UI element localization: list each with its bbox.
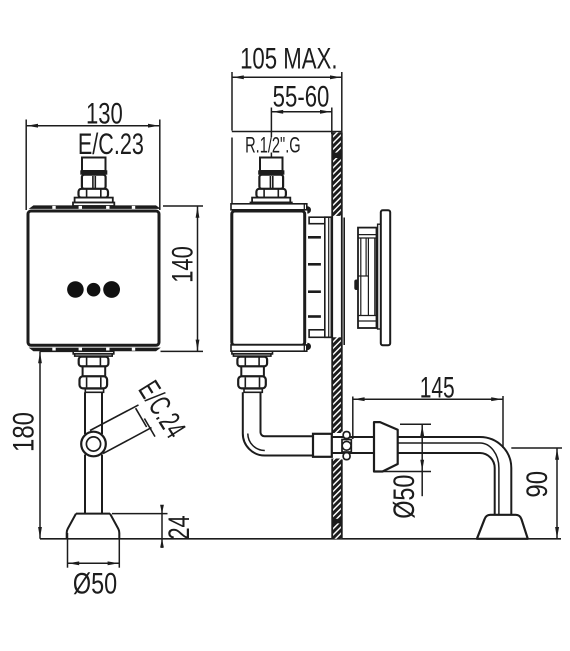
bracket tooth 1 bbox=[308, 236, 321, 239]
E/C.24 connector callout lines bbox=[90, 405, 155, 454]
inlet tube (front) bbox=[82, 158, 106, 172]
wall back contact line bbox=[343, 218, 345, 346]
top lid (side) bbox=[231, 204, 307, 210]
sensor dot middle bbox=[87, 283, 101, 297]
elbow highlight line bbox=[248, 434, 265, 451]
svg-text:Ø50: Ø50 bbox=[387, 475, 420, 519]
dimension 140 bbox=[161, 206, 204, 351]
outlet lower nut (front) bbox=[80, 376, 108, 388]
sensor dot right bbox=[103, 281, 120, 298]
inlet base step 1 (front) bbox=[75, 198, 113, 203]
svg-text:24: 24 bbox=[162, 515, 196, 539]
dimension 90 bbox=[511, 448, 562, 539]
svg-text:90: 90 bbox=[519, 471, 553, 498]
concealed bracket body (behind wall) bbox=[358, 228, 377, 328]
dimension 55-60 bbox=[271, 108, 331, 158]
outlet lower nut (side) bbox=[238, 376, 266, 388]
valve box body (front) bbox=[28, 211, 159, 345]
niche top line bbox=[232, 131, 342, 133]
bottom lid (front) bbox=[29, 348, 161, 352]
inlet base step 1 (side) bbox=[252, 198, 290, 203]
inlet hex nut (front) bbox=[79, 189, 109, 198]
svg-text:105 MAX.: 105 MAX. bbox=[240, 41, 337, 75]
wall section bbox=[332, 132, 342, 539]
svg-text:55-60: 55-60 bbox=[273, 79, 330, 113]
outlet sleeve (front) bbox=[85, 389, 103, 393]
flush pipe upper segment (front) bbox=[85, 392, 102, 434]
elbow ball joint bbox=[81, 432, 106, 457]
outlet sleeve (side) bbox=[244, 389, 262, 393]
dimension Ø50 (side) bbox=[383, 424, 432, 496]
dimension 105 MAX. bbox=[232, 72, 342, 206]
svg-text:Ø50: Ø50 bbox=[73, 567, 117, 600]
svg-text:145: 145 bbox=[420, 372, 455, 404]
inlet compression ring (side) bbox=[258, 170, 284, 174]
outlet base step 2 (front) bbox=[75, 354, 113, 356]
outlet base step 2 (side) bbox=[233, 354, 271, 356]
outlet hex nut (front) bbox=[79, 357, 109, 367]
svg-text:E/C.23: E/C.23 bbox=[78, 127, 144, 161]
inlet compression ring (front) bbox=[80, 170, 107, 174]
through-wall locknut body bbox=[342, 440, 351, 453]
horizontal pipe to bend (side) bbox=[398, 437, 512, 515]
inlet upper nut (front) bbox=[82, 175, 106, 189]
bottom lid (side) bbox=[231, 345, 307, 351]
outlet neck (side) bbox=[241, 366, 264, 376]
pipe foot (side) bbox=[477, 515, 528, 539]
wall anchor blob upper bbox=[332, 153, 342, 158]
outlet neck (front) bbox=[83, 366, 106, 376]
mounting bracket bottom cap (side) bbox=[309, 330, 331, 338]
bottom lid end cap (side) bbox=[307, 343, 311, 350]
dimension Ø50 (front) bbox=[68, 533, 120, 568]
top lid end cap (side) bbox=[307, 206, 311, 213]
valve box body (side) bbox=[232, 211, 305, 345]
top lid (front) bbox=[29, 205, 161, 209]
through-wall locknut top bbox=[343, 432, 350, 439]
wall hatch middle bbox=[332, 337, 341, 433]
inlet base step 2 (front) bbox=[73, 203, 114, 207]
mounting back plate (side) bbox=[325, 217, 332, 337]
outlet base step 1 (front) bbox=[73, 351, 114, 354]
flush pipe lower segment (front) bbox=[85, 455, 102, 514]
dimension 145 bbox=[353, 396, 503, 448]
wall hatch lower bbox=[332, 459, 341, 539]
sensor dot left bbox=[67, 281, 84, 298]
down pipe and elbow to wall (side) bbox=[243, 392, 313, 455]
wall face lines bbox=[332, 132, 342, 539]
bracket tooth 4 bbox=[308, 315, 321, 318]
through-wall locknut bottom bbox=[343, 453, 350, 460]
inlet hex nut (side) bbox=[256, 189, 286, 198]
dimension 180 bbox=[40, 351, 73, 538]
dimension 24 bbox=[112, 505, 168, 548]
outlet hex nut (side) bbox=[237, 357, 267, 367]
spreader (side) bbox=[374, 422, 398, 471]
outlet base step 1 (side) bbox=[232, 351, 273, 354]
bracket tooth 3 bbox=[308, 290, 321, 293]
concealed plate lip (behind wall) bbox=[378, 224, 382, 329]
bottom lid slots bbox=[52, 348, 135, 351]
inlet tube (side) bbox=[260, 158, 283, 172]
svg-text:130: 130 bbox=[86, 96, 123, 130]
mounting bracket top cap (side) bbox=[309, 217, 331, 224]
bracket tooth 2 bbox=[308, 263, 321, 266]
inlet base step 2 (side) bbox=[251, 203, 292, 207]
concealed plate (behind wall) bbox=[381, 210, 390, 345]
top lid slots bbox=[52, 206, 135, 209]
pipe highlight line bbox=[398, 443, 499, 515]
dimension 130 bbox=[26, 120, 160, 211]
svg-text:140: 140 bbox=[165, 246, 199, 283]
concealed bracket tab bbox=[354, 280, 358, 291]
wall coupling nut bbox=[313, 434, 332, 457]
wall anchor blob lower bbox=[332, 519, 342, 524]
inlet upper nut (side) bbox=[259, 175, 283, 189]
wall hatch upper bbox=[332, 132, 341, 216]
spreader foot (front) bbox=[67, 514, 120, 539]
floor reference line bbox=[40, 538, 561, 540]
svg-text:180: 180 bbox=[6, 412, 40, 452]
svg-text:R.1/2".G: R.1/2".G bbox=[245, 133, 301, 158]
pipe through wall bbox=[332, 437, 374, 453]
